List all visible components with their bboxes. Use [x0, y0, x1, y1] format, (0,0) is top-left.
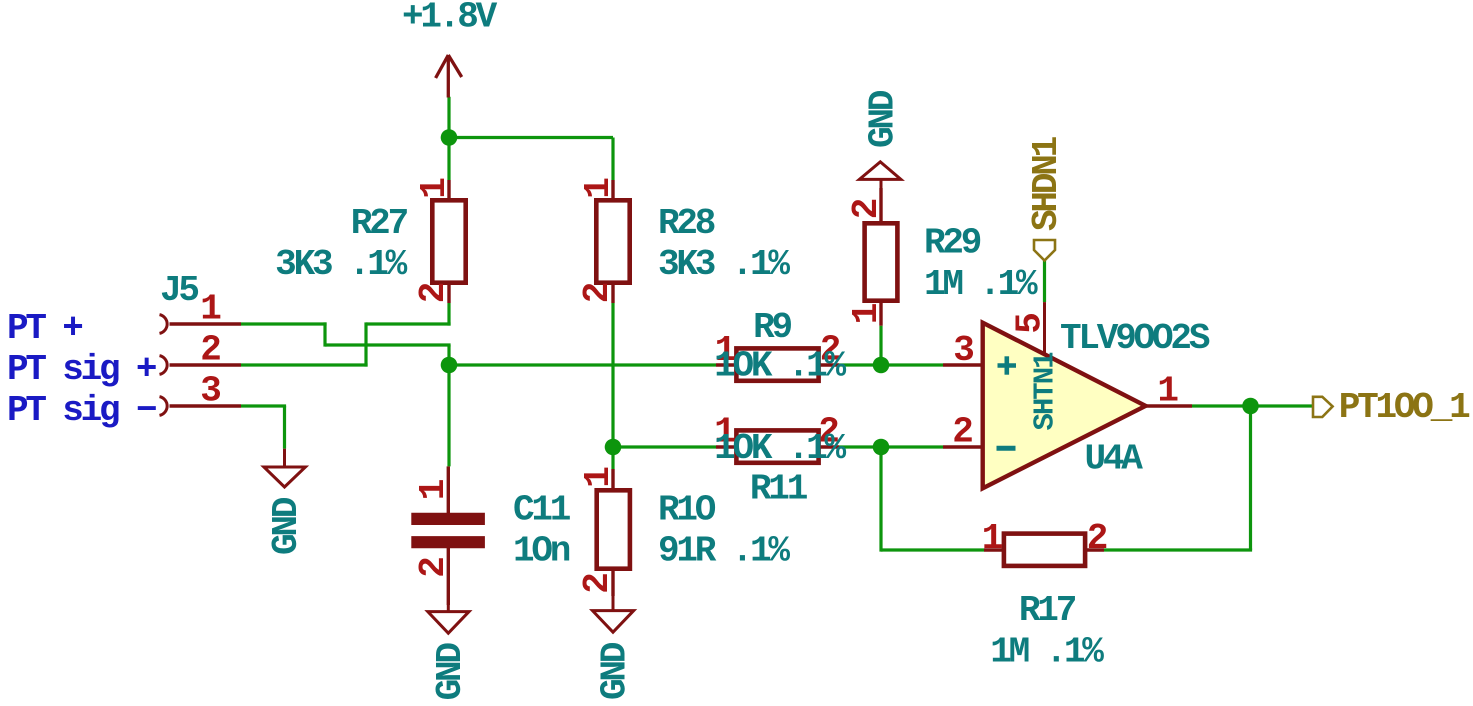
wire node A drop: [447, 345, 450, 365]
svg-text:TLV9OO2S: TLV9OO2S: [1060, 318, 1210, 359]
op-amp pin 5: [1043, 302, 1046, 354]
svg-text:2: 2: [200, 330, 220, 371]
svg-text:R27: R27: [351, 203, 408, 244]
svg-text:1M .1%: 1M .1%: [924, 264, 1038, 305]
op-amp U4A body: [983, 323, 1146, 489]
wire R27 bottom stub: [447, 303, 450, 326]
CONNECTOR J5: [7, 270, 307, 555]
svg-text:R29: R29: [924, 222, 981, 263]
junction node C: [873, 357, 890, 374]
op-amp minus mark: [997, 446, 1016, 451]
wire node B to R10 top: [611, 447, 614, 469]
svg-text:R9: R9: [753, 307, 791, 348]
hierarchical label SHDN1 shape: [1034, 240, 1055, 261]
junction node OUT: [1242, 398, 1259, 415]
svg-text:U4A: U4A: [1085, 439, 1144, 480]
wire R29 bottom to node C: [879, 326, 882, 365]
J5 pin 3: [170, 404, 242, 407]
svg-text:1: 1: [846, 303, 887, 324]
CAPACITOR: [411, 466, 571, 700]
RESISTORS: [275, 90, 1107, 700]
wire node A to R9 pin1: [449, 363, 716, 366]
svg-text:1: 1: [413, 479, 454, 500]
svg-text:3K3 .1%: 3K3 .1%: [275, 244, 407, 285]
resistor R29: [865, 188, 898, 326]
op-amp plus mark: [998, 356, 1017, 374]
svg-text:1OK .1%: 1OK .1%: [714, 346, 846, 387]
J5 pin 3 socket arc: [160, 397, 168, 416]
op-amp pin 2: [943, 445, 982, 448]
resistor R28: [596, 180, 629, 303]
ground symbol above R29: [859, 162, 901, 190]
junction node D: [873, 439, 890, 456]
svg-text:2: 2: [952, 411, 972, 452]
svg-text:2: 2: [846, 199, 887, 219]
svg-text:3: 3: [953, 330, 973, 371]
svg-text:1M .1%: 1M .1%: [990, 632, 1104, 673]
svg-text:1OK .1%: 1OK .1%: [714, 428, 846, 469]
junction node top rail: [441, 129, 458, 146]
wire node D feedback drop: [879, 447, 882, 552]
wire feedback bottom right: [1104, 548, 1252, 551]
svg-text:2: 2: [577, 283, 618, 303]
svg-text:3K3 .1%: 3K3 .1%: [658, 244, 790, 285]
ground symbol below C11: [428, 605, 469, 633]
junction node B: [605, 439, 622, 456]
svg-text:2: 2: [413, 283, 454, 303]
J5 pin 1 socket arc: [160, 315, 168, 334]
svg-text:91R .1%: 91R .1%: [658, 531, 790, 572]
op-amp pin 3: [943, 363, 982, 366]
svg-text:R1O: R1O: [658, 490, 716, 531]
svg-text:1: 1: [414, 178, 455, 199]
resistor R17: [984, 534, 1104, 566]
wire J5 pin1 jog down: [323, 322, 326, 346]
svg-text:R28: R28: [658, 203, 715, 244]
svg-text:1: 1: [578, 467, 619, 488]
wire +1.8V stem to R27 top: [447, 97, 450, 180]
OPAMP: [943, 302, 1210, 488]
svg-text:+1.8V: +1.8V: [402, 0, 498, 38]
J5 pin 2: [170, 363, 242, 366]
wire node A to C11: [447, 365, 450, 466]
svg-text:2: 2: [413, 558, 454, 578]
wire J5 pin1 horizontal: [241, 322, 327, 325]
capacitor C11: [411, 466, 485, 605]
hierarchical label PT100_1 shape: [1313, 397, 1333, 417]
wire R28 bottom long vertical: [611, 303, 614, 447]
svg-text:5: 5: [1010, 314, 1051, 334]
svg-text:2: 2: [577, 574, 618, 594]
svg-text:R11: R11: [750, 469, 808, 510]
resistor R9: [716, 348, 839, 380]
wire node B to R11 pin1: [613, 445, 716, 448]
svg-text:1: 1: [982, 518, 1003, 559]
svg-text:1: 1: [200, 289, 221, 330]
resistor R27: [432, 180, 465, 303]
power symbol +1.8V arrow: [436, 55, 462, 98]
svg-text:PT sig −: PT sig −: [7, 390, 156, 431]
svg-text:J5: J5: [160, 270, 198, 311]
svg-text:GND: GND: [863, 90, 904, 148]
svg-text:1: 1: [1157, 371, 1178, 412]
svg-text:PT +: PT +: [7, 308, 82, 349]
svg-text:GND: GND: [266, 497, 307, 555]
svg-text:3: 3: [200, 371, 220, 412]
wire J5 pin3 horizontal: [241, 404, 286, 407]
wire R9 pin2 to opamp pin3: [839, 363, 943, 366]
wire SHDN1 drop to pin5: [1043, 261, 1046, 303]
LABELS: [1026, 136, 1470, 428]
svg-text:SHDN1: SHDN1: [1026, 136, 1067, 231]
resistor R11: [716, 430, 839, 462]
svg-text:1On: 1On: [513, 531, 570, 572]
svg-text:PT sig +: PT sig +: [7, 349, 156, 390]
wire feedback riser: [1249, 406, 1252, 550]
wire opamp output to PT100_1: [1192, 404, 1313, 407]
wire PT+ horizontal to node A: [325, 343, 451, 346]
svg-text:GND: GND: [430, 643, 471, 701]
resistor R10: [597, 469, 630, 596]
wire J5 pin3 drop to GND: [283, 406, 286, 449]
svg-text:R17: R17: [1019, 590, 1076, 631]
svg-text:1: 1: [578, 178, 619, 199]
wire R28 top drop: [611, 138, 614, 181]
wire feedback bottom left: [881, 548, 984, 551]
svg-text:GND: GND: [595, 642, 636, 700]
wire PT sig + to R27 bottom: [366, 322, 451, 325]
op-amp pin 1 output: [1146, 404, 1192, 407]
wire top rail junction to R28: [449, 136, 613, 139]
wire PT sig + riser: [364, 322, 367, 366]
svg-text:C11: C11: [513, 490, 571, 531]
wire R11 pin2 to opamp pin2: [839, 445, 943, 448]
ground symbol J5 pin3: [264, 449, 306, 487]
J5 pin 1: [170, 322, 242, 325]
svg-text:PT1OO_1: PT1OO_1: [1339, 387, 1470, 428]
junction node A: [441, 357, 458, 374]
ground symbol below R10: [593, 596, 634, 632]
J5 pin 2 socket arc: [160, 356, 168, 375]
svg-text:SHTN1: SHTN1: [1028, 352, 1061, 431]
wire J5 pin2 horizontal: [241, 363, 368, 366]
POWER: [402, 0, 498, 98]
svg-text:2: 2: [1087, 518, 1107, 559]
